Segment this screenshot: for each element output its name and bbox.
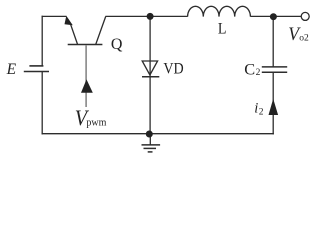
- svg-text:o2: o2: [299, 33, 309, 43]
- svg-text:2: 2: [256, 68, 261, 78]
- svg-text:C: C: [244, 60, 255, 79]
- svg-text:L: L: [218, 21, 227, 38]
- svg-text:E: E: [6, 61, 17, 78]
- svg-text:VD: VD: [163, 61, 183, 78]
- svg-text:pwm: pwm: [86, 117, 106, 128]
- svg-text:Q: Q: [111, 36, 123, 53]
- svg-text:i: i: [254, 101, 258, 117]
- svg-text:2: 2: [259, 108, 264, 118]
